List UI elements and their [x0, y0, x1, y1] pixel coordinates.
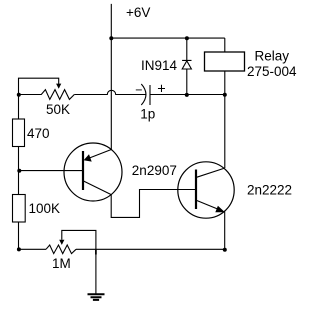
- transistor Q1 collector line: [84, 181, 112, 195]
- svg-text:2n2907: 2n2907: [132, 163, 177, 178]
- transistor Q2 2n2222 circle: [178, 162, 234, 218]
- wire 1M wiper loop: [62, 230, 96, 293]
- wire diode top lead: [186, 38, 188, 60]
- junction dot top rail / +6V: [109, 36, 113, 40]
- wire 50K wiper loop: [19, 78, 59, 94]
- wire Q2 emitter down: [224, 212, 226, 250]
- wire cap right segment: [150, 94, 225, 96]
- arrow 50K wiper: [56, 84, 61, 89]
- wire relay top drop: [224, 38, 226, 52]
- svg-text:+6V: +6V: [126, 5, 150, 20]
- wire Q1 base: [19, 170, 82, 172]
- capacitor C1 plate positive: [149, 85, 151, 105]
- wire Q1 collector to Q2 base: [111, 190, 196, 218]
- wire relay bottom lead: [224, 71, 226, 95]
- svg-text:2n2222: 2n2222: [247, 182, 292, 197]
- wire left rail seg3: [18, 222, 20, 249]
- capacitor C1 plate negative curved: [141, 84, 146, 105]
- arrow Q1 emitter: [84, 154, 92, 161]
- transistor Q1 2n2907 circle: [64, 143, 122, 201]
- wire diode bottom lead: [186, 69, 188, 95]
- relay K1 box: [205, 52, 245, 71]
- potentiometer R4 1M zigzag: [46, 245, 76, 254]
- svg-text:−: −: [135, 83, 142, 97]
- svg-text:1M: 1M: [52, 256, 71, 271]
- svg-text:IN914: IN914: [141, 58, 178, 73]
- svg-text:50K: 50K: [46, 102, 70, 117]
- wire Q2 collector up: [224, 95, 226, 169]
- ground symbol: [88, 294, 105, 300]
- junction dot 50K left: [17, 93, 21, 97]
- wire left rail seg1: [18, 95, 20, 120]
- transistor Q2 base bar: [195, 170, 197, 210]
- wire junction thick below 1M crossing: [95, 250, 97, 255]
- transistor Q1 base bar: [82, 151, 84, 190]
- arrow Q2 emitter: [215, 206, 225, 213]
- transistor Q1 emitter line: [87, 150, 112, 160]
- wire left rail seg2: [18, 147, 20, 195]
- svg-text:Relay: Relay: [255, 49, 290, 64]
- junction dot top rail / diode: [185, 36, 189, 40]
- wire 50K to cap with hop over +6V line: [74, 90, 146, 94]
- transistor Q2 emitter line: [197, 200, 223, 211]
- diode D1 IN914: [182, 60, 191, 69]
- svg-text:100K: 100K: [29, 201, 61, 216]
- junction dot bottom right: [223, 248, 227, 252]
- svg-text:470: 470: [27, 126, 50, 141]
- junction dot diode / cap line: [185, 93, 189, 97]
- wire +6V main vertical: [110, 4, 112, 150]
- junction dot bottom left: [17, 247, 21, 251]
- arrow 1M wiper: [59, 240, 64, 245]
- resistor R3 100K box: [13, 195, 26, 223]
- wire bottom rail: [19, 248, 46, 250]
- svg-text:275-004: 275-004: [247, 64, 297, 79]
- resistor R2 470 box: [13, 119, 25, 147]
- svg-text:+: +: [157, 81, 165, 97]
- potentiometer R1 50K zigzag: [19, 90, 75, 100]
- svg-text:1p: 1p: [140, 107, 155, 122]
- wire top rail: [111, 37, 225, 39]
- transistor Q2 collector line: [197, 168, 225, 177]
- wire bottom rail right: [76, 248, 225, 250]
- junction dot relay / cap line: [223, 93, 227, 97]
- junction dot Q1 base: [17, 169, 21, 173]
